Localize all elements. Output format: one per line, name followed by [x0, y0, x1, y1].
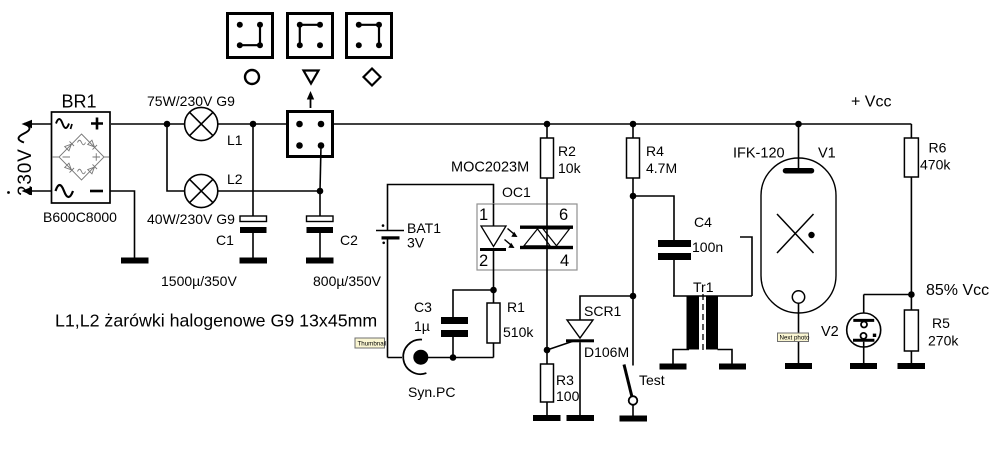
svg-text:SCR1: SCR1 [584, 303, 622, 319]
ground below Tr1 right [719, 364, 746, 370]
svg-text:85% Vcc: 85% Vcc [926, 282, 989, 299]
wire BR1 minus to ground [110, 191, 135, 258]
LED inside OC1 [493, 204, 495, 226]
arrow selected option [307, 91, 314, 108]
svg-text:4: 4 [560, 252, 569, 270]
node junction gate/R3 [544, 347, 551, 354]
node junction tube anode [795, 121, 802, 128]
svg-text:MOC2023M: MOC2023M [451, 160, 529, 176]
lamp L2 [147, 171, 243, 227]
triac inside OC1 [520, 226, 573, 229]
ground below SCR1 [567, 415, 595, 421]
svg-text:L2: L2 [227, 171, 243, 187]
svg-text:R2: R2 [558, 143, 576, 159]
ground below C2 [306, 258, 334, 264]
svg-text:R1: R1 [507, 299, 525, 315]
lamp L1 [147, 93, 243, 148]
ground below C1 [240, 258, 268, 264]
svg-text:C2: C2 [340, 232, 358, 248]
option symbol triangle [304, 71, 319, 84]
svg-text:100n: 100n [692, 239, 723, 255]
node junction C3/R1 bottom [450, 354, 457, 361]
svg-text:1: 1 [479, 206, 488, 224]
svg-text:Thumbnail: Thumbnail [358, 341, 387, 348]
wire R4 down to test switch [632, 178, 634, 366]
label Thumbnail [355, 338, 386, 348]
node junction L2/C2 [317, 188, 324, 195]
node junction on rail at L2 split [164, 121, 171, 128]
wire socket to divider node [864, 294, 912, 296]
svg-text:Test: Test [639, 372, 665, 388]
svg-text:L1: L1 [227, 132, 243, 148]
node junction LED cathode [490, 287, 497, 294]
svg-text:IFK-120: IFK-120 [733, 145, 785, 161]
svg-text:470k: 470k [920, 157, 951, 173]
option symbol circle [245, 70, 259, 84]
wire main +Vcc rail from BR1 plus to R6 [111, 124, 911, 138]
node junction R2 top [544, 121, 551, 128]
connector option box 3 [347, 14, 392, 58]
svg-text:R5: R5 [932, 315, 950, 331]
thyristor SCR1 [547, 303, 629, 415]
svg-text:B600C8000: B600C8000 [43, 209, 117, 225]
battery BAT1 [376, 185, 494, 358]
light arrows [505, 229, 515, 246]
connector option box 1 [228, 14, 273, 58]
svg-text:OC1: OC1 [502, 184, 531, 200]
connector main box [288, 112, 333, 157]
capacitor C4 [658, 214, 723, 296]
svg-text:L1,L2 żarówki halogenowe G9 13: L1,L2 żarówki halogenowe G9 13x45mm [55, 311, 377, 331]
svg-text:6: 6 [559, 206, 568, 224]
svg-text:1500µ/350V: 1500µ/350V [161, 273, 237, 289]
arrow mains input top [22, 120, 52, 128]
wire bottom node [388, 357, 494, 359]
svg-text:R3: R3 [556, 372, 574, 388]
transformer Tr1 [673, 237, 752, 364]
ground below tube [785, 363, 812, 369]
capacitor C1 [161, 124, 267, 289]
svg-text:R6: R6 [929, 140, 947, 156]
ground below Tr1 left [660, 364, 687, 370]
svg-text:75W/230V G9: 75W/230V G9 [147, 93, 235, 109]
wire node to C3 [453, 290, 494, 317]
svg-text:40W/230V G9: 40W/230V G9 [147, 211, 235, 227]
socket V2 trigger electrode [847, 295, 881, 364]
node junction SCR anode branch [630, 293, 637, 300]
node junction divider [908, 291, 915, 298]
svg-text:D106M: D106M [584, 344, 629, 360]
svg-text:C1: C1 [216, 232, 234, 248]
bridge rectifier BR1 [43, 92, 117, 226]
ground below R5 [898, 363, 926, 369]
resistor R4 [627, 124, 678, 178]
svg-text:1µ: 1µ [414, 318, 430, 334]
node junction R4/C4 [630, 193, 637, 200]
node junction R4 top [630, 121, 637, 128]
svg-text:+ Vcc: + Vcc [851, 94, 891, 111]
wire SCR anode [580, 296, 633, 320]
svg-text:510k: 510k [503, 324, 534, 340]
resistor R5 [904, 310, 959, 363]
svg-text:270k: 270k [928, 333, 959, 349]
node junction on rail at C1 [250, 121, 257, 128]
svg-text:Syn.PC: Syn.PC [408, 384, 455, 400]
switch Test [624, 365, 665, 416]
capacitor C2 [307, 191, 382, 289]
wire R2 through triac to gate node [546, 178, 548, 364]
svg-text:230V: 230V [15, 148, 36, 196]
optocoupler OC1 MOC2023M [451, 160, 577, 291]
option symbol diamond [364, 69, 381, 86]
resistor R6 [904, 138, 951, 310]
svg-text:C4: C4 [694, 214, 712, 230]
capacitor C3 [414, 299, 468, 358]
svg-text:BR1: BR1 [62, 92, 97, 112]
label Next photo [778, 333, 810, 342]
ground below Test [620, 416, 648, 422]
svg-text:R4: R4 [646, 143, 664, 159]
svg-text:2: 2 [479, 252, 488, 270]
svg-text:V2: V2 [821, 324, 839, 340]
svg-text:3V: 3V [407, 235, 425, 251]
svg-text:10k: 10k [558, 160, 582, 176]
svg-text:4.7M: 4.7M [646, 160, 677, 176]
ground below socket [850, 363, 877, 369]
resistor R3 [541, 364, 580, 415]
wire to C4 [633, 196, 674, 240]
svg-text:Next photo: Next photo [780, 335, 810, 342]
arrow mains input bottom [22, 187, 52, 195]
ground below R3 [533, 415, 561, 421]
ground below BR1 [121, 258, 149, 264]
wire L2 branch vertical from rail junction [167, 124, 185, 191]
resistor R2 [541, 124, 582, 178]
connector option box 2 [288, 14, 333, 58]
svg-text:C3: C3 [414, 299, 432, 315]
resistor R1 [487, 290, 534, 358]
svg-text:V1: V1 [818, 145, 836, 161]
230V mains label rotated [7, 124, 36, 197]
connector Syn.PC [403, 340, 455, 400]
flash tube V1/V2 IFK-120 [733, 124, 839, 363]
svg-text:100: 100 [556, 388, 580, 404]
svg-text:Tr1: Tr1 [693, 279, 714, 295]
wire connector box to L2/C2 node [320, 146, 321, 192]
wire L2 lamp to C2 node [218, 190, 320, 192]
svg-text:800µ/350V: 800µ/350V [313, 273, 382, 289]
